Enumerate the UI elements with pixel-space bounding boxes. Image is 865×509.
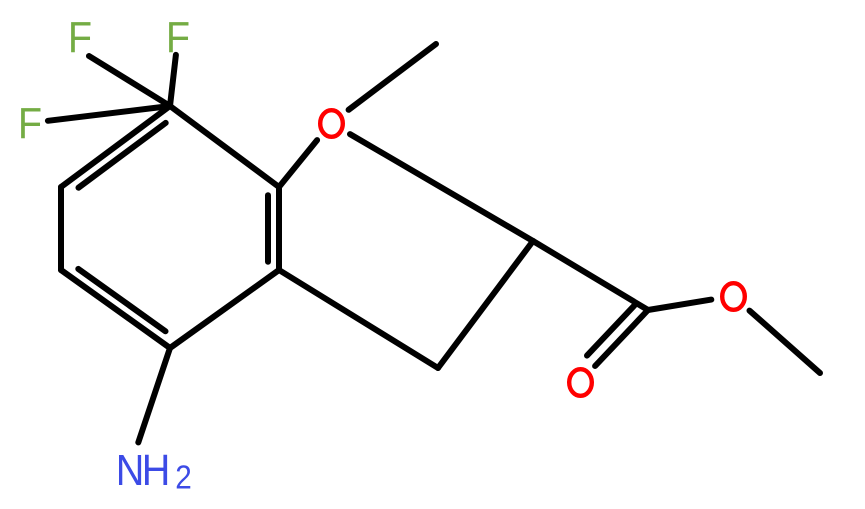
svg-text:N: N	[116, 445, 145, 494]
atom O3 (ester O)	[722, 283, 745, 310]
svg-text:2: 2	[175, 459, 192, 496]
bond O1-CH3 (methoxy methyl)	[349, 44, 436, 110]
bond C-F2	[170, 55, 176, 106]
svg-text:F: F	[166, 12, 190, 61]
ring bond C2-C3 (R1-R2)	[276, 187, 282, 270]
bond C2-O1 (aryl ether)	[279, 140, 317, 187]
bond C=O2 line 2	[587, 305, 634, 355]
atom O1 (methoxy O)	[320, 110, 343, 137]
bond E-O3 (ester single)	[648, 300, 711, 310]
ring bond C1-C2 (T-R1)	[170, 106, 279, 187]
bond Cm-E (to ester carbon)	[533, 241, 648, 310]
ring double bond inner line C6-C1	[79, 123, 166, 188]
ring bond C3-C4 (R2-B)	[170, 270, 279, 348]
svg-text:F: F	[68, 12, 92, 61]
bond O3-CH3 (ester methyl)	[750, 311, 821, 373]
ring double bond inner line C2-C3	[265, 195, 271, 261]
bond V-C3 (to ring)	[279, 270, 438, 368]
ring bond C5-C6 (L2-L1)	[58, 187, 64, 270]
svg-text:F: F	[18, 98, 42, 147]
ring bond C4-C5 (B-L2)	[61, 270, 170, 348]
bond C-F1	[89, 56, 170, 106]
bond C-F3	[48, 106, 170, 121]
bond C=O2 line 1	[595, 310, 648, 366]
bond Cm-V	[438, 241, 533, 368]
atom O2 (carbonyl O)	[569, 369, 592, 396]
bond O1-Cm (chain)	[350, 134, 533, 241]
bond C4-N (aniline)	[138, 348, 170, 442]
svg-text:H: H	[142, 445, 171, 494]
ring double bond inner line C4-C5	[78, 269, 165, 331]
ring bond C6-C1 (L1-T)	[61, 106, 170, 187]
